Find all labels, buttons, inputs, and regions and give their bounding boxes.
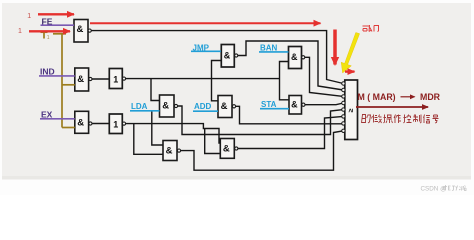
svg-text:&: & bbox=[221, 101, 228, 112]
svg-text:LDA: LDA bbox=[131, 102, 148, 111]
svg-text:M ( MAR): M ( MAR) bbox=[358, 92, 396, 102]
svg-text:&: & bbox=[77, 117, 84, 128]
svg-text:&: & bbox=[223, 143, 230, 154]
svg-text:&: & bbox=[77, 74, 84, 85]
svg-text:≥: ≥ bbox=[348, 108, 355, 112]
svg-text:1: 1 bbox=[27, 13, 31, 20]
svg-text:&: & bbox=[291, 100, 298, 110]
svg-text:BAN: BAN bbox=[260, 43, 278, 52]
svg-text:&: & bbox=[77, 24, 84, 35]
svg-text:CSDN @: CSDN @ bbox=[421, 186, 447, 193]
svg-text:MDR: MDR bbox=[420, 92, 441, 102]
svg-text:1: 1 bbox=[18, 28, 22, 35]
svg-text:&: & bbox=[162, 101, 169, 112]
svg-text:1: 1 bbox=[113, 119, 118, 129]
svg-text:1: 1 bbox=[47, 35, 50, 41]
svg-text:&: & bbox=[291, 52, 298, 62]
svg-text:STA: STA bbox=[261, 100, 277, 109]
svg-text:&: & bbox=[224, 50, 231, 60]
svg-text:1: 1 bbox=[113, 74, 118, 84]
svg-text:ADD: ADD bbox=[194, 102, 212, 111]
svg-text:&: & bbox=[166, 145, 173, 156]
